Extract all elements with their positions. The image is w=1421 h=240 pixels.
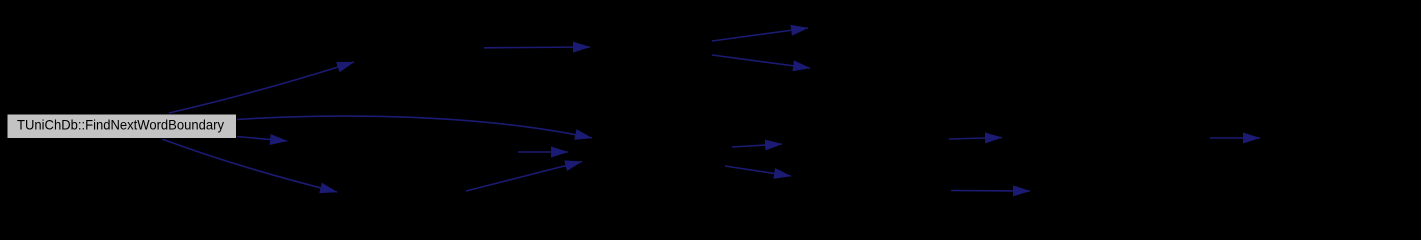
edge E7: diagonal up-right arrow [466, 162, 582, 192]
edge E14: far right arrow [1210, 137, 1260, 139]
edge E2: long curve box right to middle node [237, 116, 592, 138]
edge E8: fan upper [712, 28, 808, 41]
edge E5: top horizontal arrow [484, 46, 590, 49]
edge E11: small down arrow [725, 166, 791, 176]
edge E12: right horizontal arrow upper [949, 138, 1002, 140]
node box TUniChDb::FindNextWordBoundary [7, 114, 237, 139]
edge E10: small up arrow [732, 144, 782, 147]
edge E13: right horizontal arrow lower [951, 190, 1030, 193]
edge E1: box top to node (up-right) [169, 62, 354, 113]
edge E6: middle short horizontal arrow [518, 151, 568, 153]
svg-text:TUniChDb::FindNextWordBoundary: TUniChDb::FindNextWordBoundary [17, 117, 224, 133]
edge E4: box bottom to lower node [162, 139, 337, 192]
edge E3: short arrow from box right [237, 137, 287, 142]
edge E9: fan lower [712, 55, 810, 68]
